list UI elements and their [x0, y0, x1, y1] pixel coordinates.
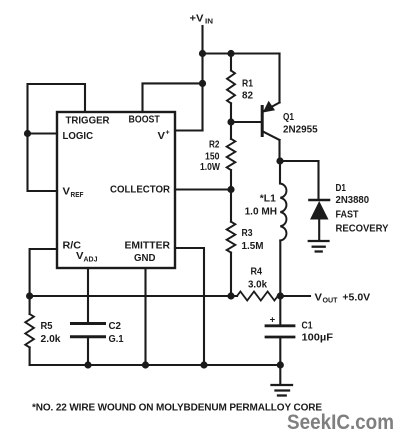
svg-text:OUT: OUT [323, 298, 339, 305]
svg-text:V: V [158, 130, 166, 142]
svg-text:C2: C2 [109, 320, 122, 332]
svg-text:Q1: Q1 [283, 111, 294, 123]
junction top-left [199, 50, 206, 57]
junction base node [227, 118, 234, 125]
junction GND bottom [142, 361, 149, 368]
svg-text:TRIGGER: TRIGGER [66, 115, 110, 127]
svg-text:2.0k: 2.0k [41, 333, 61, 345]
wire +VIN stub [201, 26, 203, 54]
junction LOGIC node [24, 130, 31, 137]
svg-text:V: V [315, 292, 323, 304]
wire to V+ pin [175, 129, 203, 131]
wire bottom rail [30, 364, 281, 366]
svg-text:BOOST: BOOST [129, 114, 161, 126]
resistor R5 [25, 296, 60, 365]
svg-text:LOGIC: LOGIC [63, 130, 94, 142]
svg-text:G.1: G.1 [109, 333, 124, 345]
junction R3/R4 node [227, 292, 234, 299]
wire GND pin [144, 268, 146, 365]
wire VADJ pin [87, 268, 89, 324]
resistor R2 [200, 122, 235, 190]
wire COLLECTOR pin [175, 188, 231, 190]
diode D1 [310, 182, 389, 240]
capacitor C1 [266, 296, 334, 365]
wire to BOOST pin [143, 83, 203, 112]
inductor L1 [245, 161, 287, 296]
svg-text:EMITTER: EMITTER [125, 240, 171, 252]
svg-text:RECOVERY: RECOVERY [336, 223, 389, 235]
ground D1 [309, 241, 329, 252]
svg-text:R3: R3 [242, 227, 253, 239]
svg-text:ADJ: ADJ [84, 257, 98, 264]
svg-text:*NO. 22 WIRE WOUND ON MOLYBDEN: *NO. 22 WIRE WOUND ON MOLYBDENUM PERMALL… [32, 403, 322, 414]
svg-text:R5: R5 [41, 320, 53, 332]
svg-text:V: V [63, 186, 71, 198]
resistor R4 [237, 266, 278, 301]
svg-text:R1: R1 [242, 78, 253, 90]
wire LOGIC pin [28, 132, 58, 134]
svg-text:100µF: 100µF [302, 332, 334, 344]
svg-text:1.0 MH: 1.0 MH [245, 206, 277, 218]
wire VOUT stub [280, 295, 310, 297]
capacitor C2 [72, 320, 124, 365]
junction emitter bottom [200, 361, 207, 368]
svg-text:COLLECTOR: COLLECTOR [110, 184, 170, 196]
svg-text:+V: +V [190, 13, 204, 25]
junction C2 bottom [84, 361, 91, 368]
transistor Q1 [262, 54, 318, 162]
svg-text:R4: R4 [251, 266, 263, 278]
svg-text:C1: C1 [302, 320, 313, 332]
svg-text:D1: D1 [336, 182, 347, 194]
junction boost branch [199, 80, 206, 87]
wire base [231, 121, 261, 123]
svg-text:+: + [166, 130, 170, 137]
svg-text:1.0W: 1.0W [200, 161, 220, 173]
node VOUT [315, 292, 371, 305]
wire EMITTER pin [175, 248, 204, 365]
svg-text:IN: IN [205, 19, 213, 26]
svg-text:3.0k: 3.0k [248, 279, 267, 291]
svg-text:FAST: FAST [336, 209, 359, 221]
svg-text:V: V [76, 250, 84, 262]
resistor R1 [227, 54, 253, 123]
node +VIN [190, 13, 214, 26]
svg-text:2N2955: 2N2955 [283, 123, 318, 135]
svg-text:SeekIC.com: SeekIC.com [287, 410, 394, 434]
wire TRIGGER loop [28, 84, 86, 191]
resistor R3 [227, 190, 264, 297]
svg-text:82: 82 [242, 90, 253, 102]
wire top rail [203, 52, 280, 54]
svg-text:REF: REF [71, 192, 85, 199]
wire V+ branch vertical [201, 54, 203, 131]
svg-text:+5.0V: +5.0V [342, 292, 370, 304]
wire to D1 [280, 161, 319, 199]
junction VOUT node [277, 292, 284, 299]
junction C1 bottom [277, 361, 284, 368]
svg-text:1.5M: 1.5M [242, 240, 264, 252]
junction collector pin node [227, 186, 234, 193]
svg-text:*L1: *L1 [260, 193, 276, 205]
IC U1 regulator block [57, 112, 175, 268]
junction R/C node [26, 292, 33, 299]
svg-text:+: + [270, 315, 276, 326]
wire mid rail [30, 295, 237, 297]
svg-text:2N3880: 2N3880 [336, 194, 370, 206]
junction top R1 [227, 50, 234, 57]
wire R/C pin [30, 249, 57, 296]
ground main [272, 385, 293, 396]
junction collector node [276, 157, 283, 164]
svg-text:GND: GND [134, 252, 156, 264]
svg-text:R2: R2 [209, 139, 220, 151]
wire ground stub [279, 365, 281, 384]
